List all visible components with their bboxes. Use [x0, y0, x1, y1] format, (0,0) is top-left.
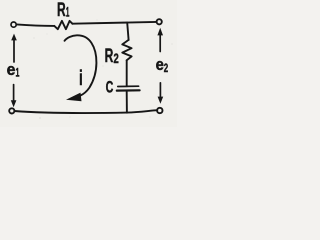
wire R2 to capacitor	[126, 60, 128, 85]
resistor R1	[54, 21, 72, 29]
wire R2 branch from top node	[127, 23, 128, 40]
voltage arrow e2 up	[157, 28, 163, 52]
current loop arrow i	[65, 35, 97, 96]
voltage arrow e1 up	[11, 34, 17, 62]
arrowhead of current loop i	[66, 93, 82, 102]
svg-text:1: 1	[16, 67, 20, 79]
voltage arrow e2 down	[158, 83, 164, 104]
paper speckle noise	[33, 19, 173, 119]
svg-text:2: 2	[164, 63, 168, 75]
label R1	[57, 0, 70, 21]
wire capacitor to bottom wire	[126, 92, 128, 113]
svg-text:e: e	[156, 56, 164, 74]
terminal top-right	[157, 19, 162, 24]
svg-text:R: R	[105, 46, 114, 67]
svg-text:R: R	[57, 0, 66, 21]
svg-text:C: C	[106, 79, 114, 97]
svg-text:e: e	[7, 61, 16, 79]
svg-text:1: 1	[66, 4, 70, 19]
terminal top-left	[11, 22, 16, 27]
label e2	[156, 56, 169, 75]
terminal bottom-left	[9, 108, 14, 113]
wire top left segment	[17, 24, 55, 26]
terminal bottom-right	[157, 108, 162, 113]
label e1	[7, 61, 20, 79]
capacitor C	[117, 86, 140, 90]
label R2	[105, 46, 119, 67]
resistor R2	[122, 40, 131, 60]
wire bottom	[14, 110, 157, 113]
voltage arrow e1 down	[11, 85, 17, 108]
svg-text:2: 2	[114, 51, 119, 66]
wire top right segment	[72, 22, 156, 24]
svg-text:i: i	[79, 67, 83, 90]
